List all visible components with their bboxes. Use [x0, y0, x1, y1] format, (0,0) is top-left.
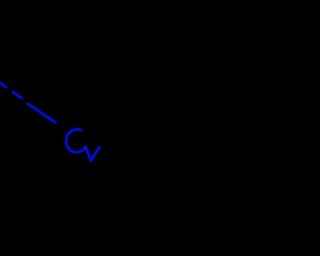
label Cv (handwritten capacitor label: C stroke flowing into v) — [66, 129, 99, 160]
wire dash segment 2 (dashed blue line, middle) — [13, 92, 22, 98]
wire dash segment 3 (dashed blue line, long) — [28, 104, 56, 123]
wire dash segment 1 (dashed blue line, leftmost) — [0, 82, 6, 88]
